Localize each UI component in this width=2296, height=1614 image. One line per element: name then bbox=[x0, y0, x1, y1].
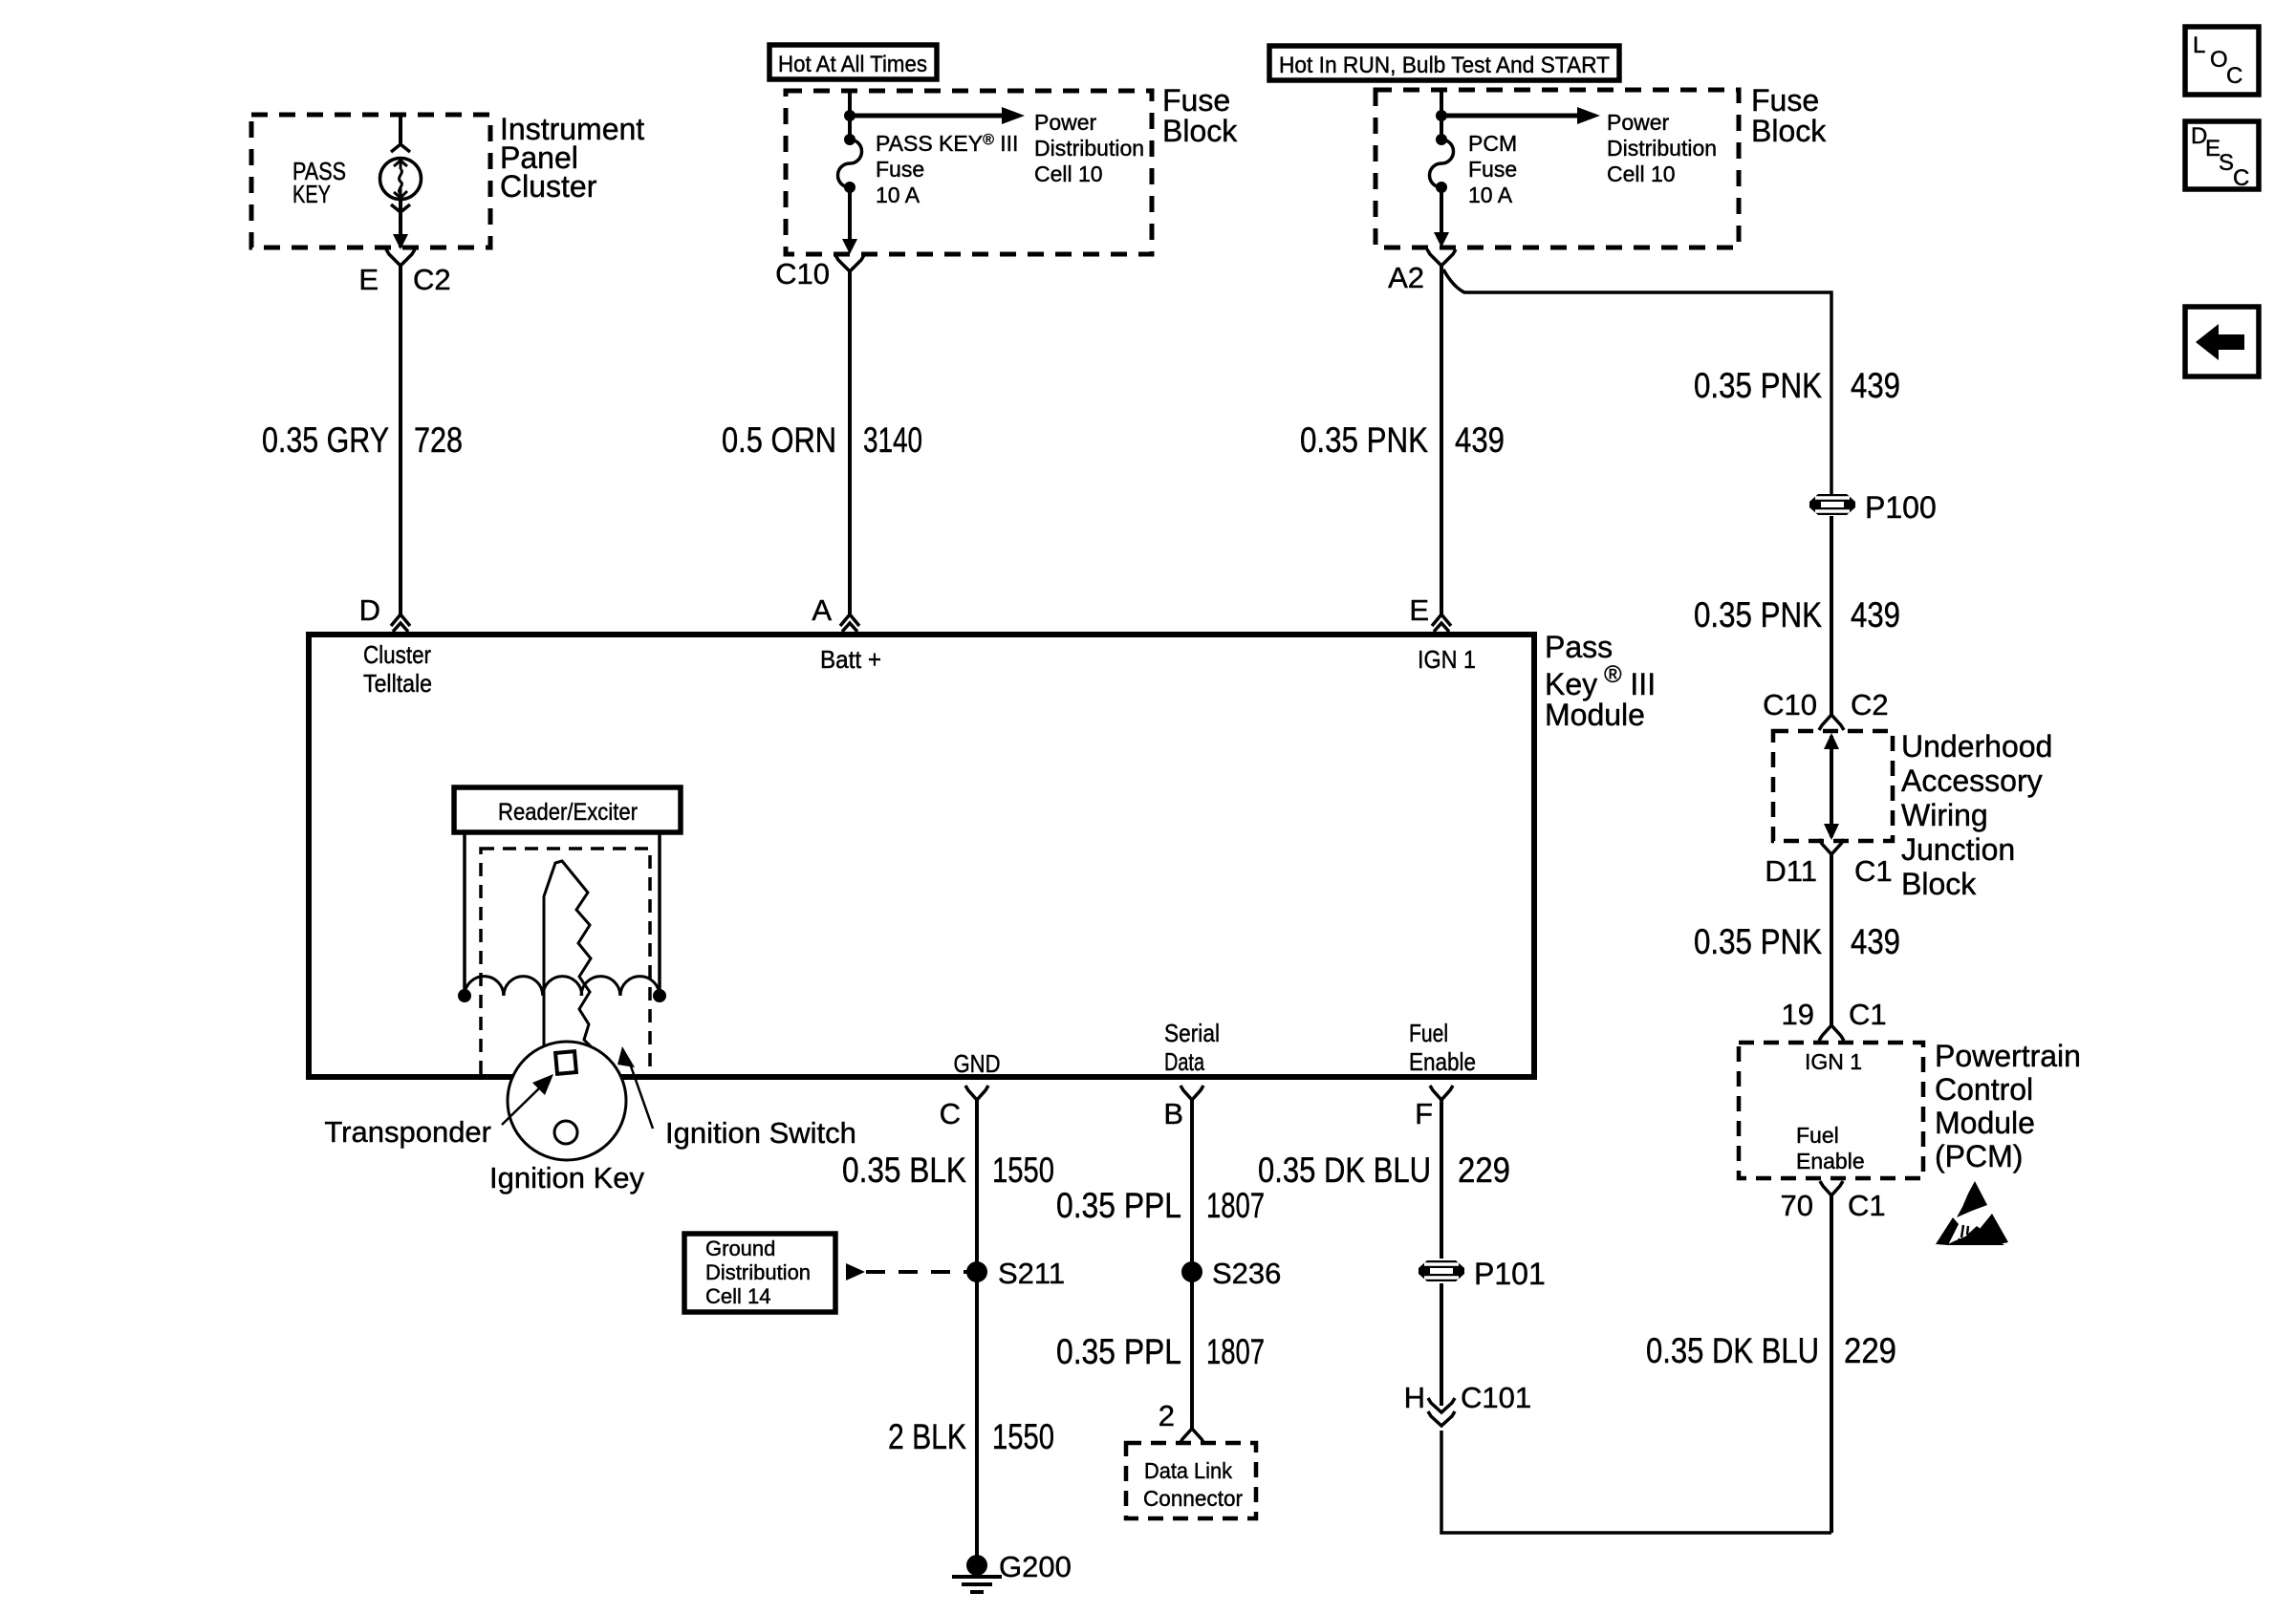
svg-text:Hot At All Times: Hot At All Times bbox=[778, 52, 927, 77]
svg-text:0.5 ORN: 0.5 ORN bbox=[722, 420, 836, 460]
arrowhead up bbox=[1824, 824, 1839, 840]
svg-text:Transponder: Transponder bbox=[324, 1115, 491, 1149]
wire P100 to junction block bbox=[1830, 516, 1833, 715]
svg-text:Distribution: Distribution bbox=[705, 1260, 811, 1284]
svg-text:3140: 3140 bbox=[863, 420, 922, 460]
ground G200 bbox=[966, 1555, 987, 1576]
wire 0.35 DK BLU 229 from PCM 70 bbox=[1830, 1195, 1833, 1533]
svg-text:Pass: Pass bbox=[1545, 630, 1613, 664]
svg-text:Junction: Junction bbox=[1901, 832, 2015, 867]
svg-text:439: 439 bbox=[1455, 420, 1505, 460]
svg-text:E: E bbox=[1409, 593, 1429, 627]
svg-text:0.35 DK BLU: 0.35 DK BLU bbox=[1258, 1151, 1431, 1190]
wire 0.35 DK BLU 229 to P101 bbox=[1440, 1100, 1443, 1259]
svg-text:A2: A2 bbox=[1388, 261, 1424, 294]
svg-text:2: 2 bbox=[1159, 1399, 1175, 1432]
inline connector P101 bbox=[1419, 1260, 1464, 1281]
svg-text:0.35 BLK: 0.35 BLK bbox=[842, 1151, 966, 1190]
DESC box bbox=[2185, 121, 2259, 189]
wire into PCM fuse bbox=[1440, 90, 1443, 140]
wire 0.35 PNK 439 to PCM bbox=[1830, 854, 1833, 1025]
svg-text:0.35 PPL: 0.35 PPL bbox=[1056, 1186, 1181, 1225]
branch to power distribution bbox=[850, 114, 1002, 118]
svg-text:1807: 1807 bbox=[1206, 1186, 1265, 1225]
svg-text:439: 439 bbox=[1851, 922, 1900, 961]
chevron up above bulb bbox=[391, 144, 410, 152]
arrowhead at fuse block 2 bottom bbox=[1434, 232, 1449, 247]
svg-text:Cluster: Cluster bbox=[500, 169, 597, 204]
wire inside junction block bbox=[1830, 736, 1833, 837]
svg-text:10 A: 10 A bbox=[1468, 183, 1513, 207]
svg-text:B: B bbox=[1163, 1097, 1183, 1130]
svg-text:Block: Block bbox=[1901, 867, 1977, 901]
svg-text:C1: C1 bbox=[1848, 1189, 1886, 1222]
Ground Distribution Cell 14 box bbox=[684, 1234, 835, 1312]
svg-text:1550: 1550 bbox=[992, 1417, 1054, 1456]
connector chevron D11/C1 bbox=[1819, 839, 1844, 854]
svg-text:Hot In RUN, Bulb Test And STAR: Hot In RUN, Bulb Test And START bbox=[1279, 53, 1610, 78]
svg-text:P100: P100 bbox=[1865, 490, 1937, 525]
svg-text:Wiring: Wiring bbox=[1901, 798, 1988, 832]
ignition key bbox=[508, 861, 626, 1160]
svg-text:Enable: Enable bbox=[1796, 1149, 1865, 1173]
svg-text:Module: Module bbox=[1935, 1106, 2035, 1140]
back-arrow box bbox=[2185, 307, 2259, 377]
svg-text:1807: 1807 bbox=[1206, 1332, 1265, 1371]
svg-text:IGN 1: IGN 1 bbox=[1418, 645, 1476, 674]
svg-text:Fuse: Fuse bbox=[1751, 83, 1819, 118]
svg-text:Fuse: Fuse bbox=[876, 157, 924, 182]
module pin C bbox=[965, 1086, 988, 1100]
svg-text:439: 439 bbox=[1851, 595, 1900, 635]
fuse PASS KEY III 10A bbox=[844, 134, 856, 145]
wire 0.35 PNK 439 to IGN1 bbox=[1440, 266, 1443, 614]
module pin A bbox=[840, 614, 859, 632]
ESD symbol bbox=[1936, 1181, 2008, 1245]
dashed arrow to S211 bbox=[846, 1263, 865, 1280]
svg-text:C: C bbox=[940, 1097, 961, 1130]
Hot At All Times header box bbox=[769, 45, 937, 79]
svg-text:Accessory: Accessory bbox=[1901, 764, 2043, 798]
svg-text:Powertrain: Powertrain bbox=[1935, 1039, 2081, 1073]
Pass Key III Module box bbox=[309, 635, 1534, 1077]
arrow to transponder bbox=[502, 1087, 541, 1125]
fuse PCM 10A bbox=[1436, 134, 1447, 145]
svg-text:F: F bbox=[1415, 1097, 1433, 1130]
svg-text:Fuse: Fuse bbox=[1468, 157, 1517, 182]
svg-text:1550: 1550 bbox=[992, 1151, 1054, 1190]
wire fuse to box bottom bbox=[1440, 187, 1443, 242]
wire branch A2 to right riser bbox=[1443, 269, 1831, 494]
svg-text:Fuse: Fuse bbox=[1162, 83, 1230, 118]
module pin F bbox=[1430, 1086, 1453, 1100]
svg-text:C10: C10 bbox=[775, 257, 830, 291]
wire fuse to box bottom bbox=[848, 187, 852, 248]
svg-text:C1: C1 bbox=[1849, 998, 1887, 1031]
svg-text:Power: Power bbox=[1034, 110, 1097, 135]
svg-text:70: 70 bbox=[1781, 1189, 1813, 1222]
svg-text:Enable: Enable bbox=[1409, 1047, 1476, 1076]
wire into PASS KEY fuse bbox=[848, 91, 852, 140]
svg-text:C1: C1 bbox=[1854, 854, 1893, 888]
svg-text:Block: Block bbox=[1162, 114, 1238, 148]
instrument panel cluster box (dashed) bbox=[251, 115, 490, 247]
svg-text:KEY: KEY bbox=[292, 180, 331, 208]
svg-text:Data Link: Data Link bbox=[1144, 1458, 1232, 1483]
underhood junction block box (dashed) bbox=[1773, 731, 1893, 841]
module pin E bbox=[1432, 614, 1451, 632]
svg-text:0.35 PNK: 0.35 PNK bbox=[1694, 366, 1822, 405]
svg-text:Reader/Exciter: Reader/Exciter bbox=[498, 799, 638, 826]
arrow to Power Distribution bbox=[1002, 107, 1025, 124]
Hot In RUN Bulb Test And START header box bbox=[1269, 46, 1619, 80]
inline connector P100 bbox=[1809, 494, 1855, 515]
svg-text:P101: P101 bbox=[1474, 1257, 1546, 1291]
wire 0.35 GRY 728 bbox=[399, 266, 402, 614]
svg-text:S: S bbox=[2219, 150, 2234, 176]
svg-text:Underhood: Underhood bbox=[1901, 729, 2052, 764]
connector chevron 19/C1 bbox=[1819, 1025, 1844, 1041]
Reader/Exciter box bbox=[454, 787, 681, 832]
svg-text:C2: C2 bbox=[1851, 688, 1889, 721]
svg-text:H: H bbox=[1404, 1381, 1425, 1414]
ignition switch box (dashed) bbox=[481, 849, 650, 1078]
exciter coil bbox=[465, 977, 660, 996]
wire 0.35 PPL 1807 to DLC bbox=[1190, 1100, 1194, 1429]
fuse block 1 box (dashed) bbox=[786, 91, 1152, 254]
svg-text:C: C bbox=[2233, 165, 2249, 191]
connector chevron C10/C2 bbox=[1819, 715, 1844, 730]
svg-text:229: 229 bbox=[1458, 1151, 1510, 1190]
connector chevron 70/C1 bbox=[1820, 1181, 1843, 1195]
svg-text:Cluster: Cluster bbox=[363, 640, 431, 669]
svg-text:(PCM): (PCM) bbox=[1935, 1139, 2023, 1173]
svg-text:Serial: Serial bbox=[1164, 1019, 1220, 1047]
svg-text:IGN 1: IGN 1 bbox=[1805, 1049, 1862, 1074]
svg-text:Cell 10: Cell 10 bbox=[1034, 161, 1103, 186]
svg-text:C101: C101 bbox=[1461, 1381, 1531, 1414]
indicator bulb PASS KEY telltale bbox=[380, 159, 422, 200]
svg-text:G200: G200 bbox=[999, 1550, 1072, 1583]
svg-text:Control: Control bbox=[1935, 1072, 2033, 1107]
svg-text:L: L bbox=[2193, 32, 2205, 58]
svg-text:C: C bbox=[2226, 63, 2242, 89]
svg-text:PCM: PCM bbox=[1468, 131, 1517, 156]
svg-text:2 BLK: 2 BLK bbox=[888, 1417, 966, 1456]
svg-text:S211: S211 bbox=[998, 1257, 1065, 1290]
svg-text:0.35 PPL: 0.35 PPL bbox=[1056, 1332, 1181, 1371]
svg-text:19: 19 bbox=[1782, 998, 1814, 1031]
svg-text:C10: C10 bbox=[1763, 688, 1817, 721]
chevron down below bulb bbox=[391, 204, 410, 212]
svg-text:0.35 GRY: 0.35 GRY bbox=[262, 420, 389, 460]
reader exciter right lead bbox=[658, 832, 661, 996]
wire P101 to C101 bbox=[1440, 1283, 1443, 1406]
svg-text:S236: S236 bbox=[1212, 1257, 1281, 1290]
svg-text:Cell 10: Cell 10 bbox=[1607, 161, 1676, 186]
data link connector box (dashed) bbox=[1126, 1443, 1256, 1518]
svg-text:PASS KEY® III: PASS KEY® III bbox=[876, 131, 1018, 156]
svg-text:D: D bbox=[359, 593, 380, 627]
wire bulb to box bottom bbox=[399, 199, 402, 247]
svg-text:0.35 PNK: 0.35 PNK bbox=[1694, 595, 1822, 635]
svg-text:Ignition Key: Ignition Key bbox=[489, 1161, 644, 1194]
svg-text:Module: Module bbox=[1545, 698, 1645, 732]
wire fuel enable bottom run bbox=[1441, 1431, 1831, 1533]
svg-text:D11: D11 bbox=[1765, 854, 1817, 888]
svg-text:439: 439 bbox=[1851, 366, 1900, 405]
wire 0.5 ORN 3140 bbox=[848, 271, 852, 614]
arrowhead at cluster box bottom bbox=[393, 234, 408, 249]
svg-text:E: E bbox=[358, 263, 379, 296]
svg-text:Fuel: Fuel bbox=[1409, 1019, 1448, 1047]
svg-text:Batt +: Batt + bbox=[820, 645, 881, 674]
module pin B bbox=[1180, 1086, 1203, 1100]
svg-text:728: 728 bbox=[414, 420, 463, 460]
reader exciter left lead bbox=[463, 832, 466, 996]
arrow to ignition switch bbox=[630, 1064, 653, 1129]
svg-text:Telltale: Telltale bbox=[363, 669, 432, 698]
connector chevron C10 bbox=[835, 255, 864, 271]
wire 0.35 BLK 1550 to G200 bbox=[975, 1100, 979, 1556]
svg-text:0.35 DK BLU: 0.35 DK BLU bbox=[1646, 1331, 1819, 1370]
svg-text:Cell 14: Cell 14 bbox=[705, 1284, 770, 1308]
svg-text:Distribution: Distribution bbox=[1607, 136, 1717, 161]
svg-text:Block: Block bbox=[1751, 114, 1827, 148]
coil left dot bbox=[653, 989, 666, 1002]
svg-text:229: 229 bbox=[1844, 1331, 1896, 1370]
arrowhead at fuse block 1 bottom bbox=[842, 239, 857, 254]
LOC box bbox=[2185, 27, 2259, 95]
module pin D bbox=[391, 614, 410, 632]
svg-text:Ignition Switch: Ignition Switch bbox=[665, 1116, 856, 1150]
svg-text:Connector: Connector bbox=[1143, 1486, 1243, 1511]
svg-text:Data: Data bbox=[1164, 1047, 1204, 1076]
svg-text:A: A bbox=[812, 593, 832, 627]
branch to power distribution right bbox=[1441, 114, 1577, 118]
svg-text:O: O bbox=[2210, 47, 2228, 73]
connector chevron A2 bbox=[1427, 249, 1456, 266]
wire cluster telltale upper bbox=[399, 117, 402, 143]
svg-text:C2: C2 bbox=[413, 263, 451, 296]
svg-text:GND: GND bbox=[954, 1049, 1001, 1078]
svg-text:0.35 PNK: 0.35 PNK bbox=[1300, 420, 1428, 460]
svg-text:Distribution: Distribution bbox=[1034, 136, 1144, 161]
svg-text:10 A: 10 A bbox=[876, 183, 921, 207]
connector chevron H/C101 (double) bbox=[1428, 1398, 1455, 1426]
svg-text:0.35 PNK: 0.35 PNK bbox=[1694, 922, 1822, 961]
svg-text:Power: Power bbox=[1607, 110, 1670, 135]
fuse block 2 box (dashed) bbox=[1375, 90, 1739, 247]
PCM box (dashed) bbox=[1739, 1043, 1923, 1178]
connector chevron E/C2 bbox=[386, 249, 415, 266]
svg-text:Ground: Ground bbox=[705, 1237, 775, 1260]
arrow to Power Distribution right bbox=[1577, 107, 1600, 124]
svg-text:Fuel: Fuel bbox=[1796, 1123, 1839, 1148]
connector chevron DLC bbox=[1180, 1429, 1204, 1444]
